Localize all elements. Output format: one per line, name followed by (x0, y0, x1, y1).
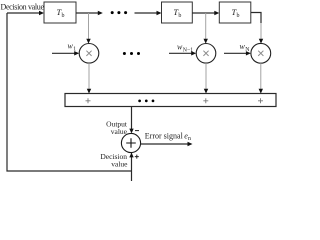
delay block Tb (third) (219, 2, 251, 23)
node: top ellipsis dots (111, 11, 114, 14)
wire: tap 1 drop to multiplier (88, 13, 90, 40)
wire: input arrow into delay T1 (7, 12, 40, 14)
svg-text:b: b (62, 13, 65, 19)
wire: delay 3 output corner down to tap N (251, 13, 261, 24)
delay block Tb (first) (44, 2, 76, 23)
summing junction (error) (121, 133, 140, 152)
wire: wN-1 arrow into multiplier 2 (169, 52, 192, 54)
node: plus sign below summing junction (135, 155, 139, 159)
wire: multiplier 1 drop to summer (88, 63, 90, 89)
node: plus sign 1 in summer (86, 98, 91, 103)
summer (adder bar) (65, 94, 276, 107)
wire: wN arrow into multiplier 3 (224, 52, 246, 54)
node: plus sign 3 in summer (258, 98, 263, 103)
multiplier X2 (196, 44, 216, 64)
multiplier X3 (251, 43, 271, 63)
wire: delay 2 output arrow into delay 3 (192, 12, 215, 14)
svg-text:value: value (111, 160, 128, 169)
wire: w1 arrow into multiplier 1 (52, 52, 75, 54)
node: plus sign 2 in summer (203, 98, 208, 103)
node: middle ellipsis dots (123, 52, 126, 55)
wire: multiplier 2 drop to summer (205, 63, 207, 89)
svg-text:b: b (237, 13, 240, 19)
wire: multiplier 3 drop to summer (260, 63, 262, 89)
multiplier X1 (79, 44, 99, 64)
wire: error signal output arrow (141, 143, 189, 145)
wire: feedback left vertical and bottom horizontal (7, 13, 132, 171)
wire: delay 1 output with arrowhead (76, 12, 98, 14)
wire: tap N-1 drop to multiplier (205, 13, 207, 40)
svg-text:n: n (188, 136, 191, 142)
node: summer ellipsis dots (138, 100, 141, 103)
svg-text:Decision value: Decision value (1, 3, 45, 12)
delay block Tb (second) (162, 2, 193, 23)
wire: summer output down to error junction (131, 107, 133, 130)
svg-text:Error signal: Error signal (145, 131, 184, 140)
wire: decision value up into summing junction (131, 153, 133, 181)
svg-text:b: b (178, 13, 181, 19)
node: minus sign at summing junction (135, 130, 139, 132)
wire: arrow into delay 2 (135, 12, 158, 14)
